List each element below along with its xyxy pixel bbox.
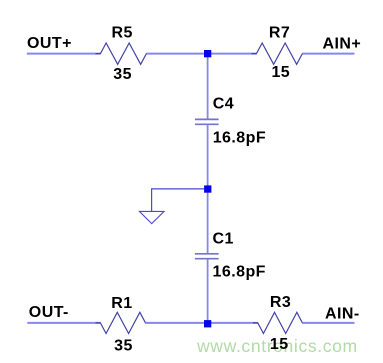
svg-text:R7: R7	[269, 25, 290, 42]
svg-text:15: 15	[270, 336, 289, 353]
svg-text:OUT+: OUT+	[27, 35, 72, 52]
node C junction	[204, 320, 211, 327]
svg-text:R1: R1	[111, 295, 132, 312]
svg-text:AIN+: AIN+	[323, 36, 362, 53]
svg-text:C1: C1	[213, 230, 234, 247]
wire R7 to AIN+	[302, 53, 354, 55]
svg-text:16.8pF: 16.8pF	[213, 130, 266, 147]
wire R3 to AIN-	[302, 322, 354, 324]
svg-text:OUT-: OUT-	[29, 304, 69, 321]
resistor R3	[253, 312, 307, 333]
svg-text:AIN-: AIN-	[325, 306, 360, 323]
wire node A to R7	[211, 53, 256, 55]
svg-text:35: 35	[113, 66, 132, 83]
svg-text:35: 35	[114, 337, 133, 354]
wire R1 to node C	[146, 322, 205, 324]
svg-text:16.8pF: 16.8pF	[213, 264, 266, 281]
node A junction	[204, 50, 211, 57]
wire R5 to node A	[146, 53, 204, 55]
wire C4 to node B	[207, 125, 209, 186]
resistor R5	[96, 43, 152, 64]
resistor R1	[96, 312, 151, 333]
wire OUT+ to R5	[27, 53, 101, 55]
wire C1 to node C	[207, 259, 209, 323]
wire node A down to C4	[207, 54, 209, 119]
wire node B to ground stub	[152, 189, 205, 211]
capacitor C1	[195, 253, 219, 255]
svg-text:C4: C4	[213, 96, 234, 113]
capacitor C4	[195, 118, 219, 120]
wire node B down to C1	[207, 193, 209, 254]
svg-text:15: 15	[271, 64, 290, 81]
ground	[139, 211, 164, 223]
svg-text:R3: R3	[270, 294, 291, 311]
wire node C to R3	[211, 322, 258, 324]
svg-text:R5: R5	[112, 25, 133, 42]
wire OUT- to R1	[27, 322, 100, 324]
node B junction	[204, 185, 211, 192]
resistor R7	[252, 43, 308, 64]
